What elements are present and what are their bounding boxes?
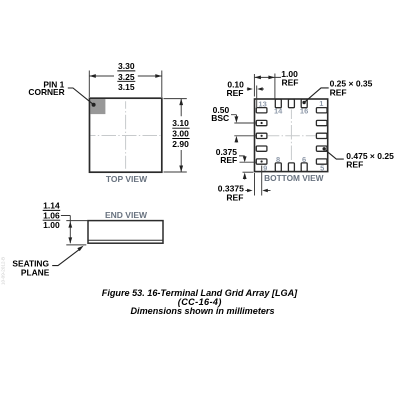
svg-text:10-09-2012-B: 10-09-2012-B [1,257,6,285]
width dimension extension line right [161,71,163,98]
seating plane leader arrow [52,249,79,265]
svg-text:1: 1 [319,99,323,108]
pad 10 [256,146,267,151]
svg-text:5: 5 [320,164,324,173]
bottom view horizontal center line [268,135,316,137]
top view vertical center line [125,101,127,168]
svg-text:CORNER: CORNER [28,87,64,97]
0.475 x 0.25 leader line [326,150,344,159]
thickness dimension arrow up [68,222,72,228]
fraction bar under 1.06 [43,219,61,221]
fraction bar under 3.10 [172,127,189,129]
width dimension extension line left [88,71,90,98]
0.375 REF pad-9 reference line [240,161,257,163]
pad 6 [301,163,307,172]
pad 16 leader dot [302,101,305,104]
pad 4 [316,146,327,151]
fraction bar under 3.25 [117,80,135,82]
svg-text:REF: REF [220,155,237,165]
svg-text:END VIEW: END VIEW [105,210,148,220]
svg-text:3.00: 3.00 [172,129,189,139]
svg-text:14: 14 [274,106,283,115]
end view seating plane inner line [88,239,163,241]
svg-text:REF: REF [282,77,299,87]
svg-text:3.30: 3.30 [118,61,135,71]
svg-text:1.00: 1.00 [43,220,60,230]
1.00 REF arrow left [254,76,261,80]
svg-text:TOP VIEW: TOP VIEW [106,174,148,184]
pad 2 [316,120,327,125]
0.375 REF arrow down [243,156,247,162]
pad 11 center dot [261,135,263,137]
pad 9 center dot [261,160,263,162]
0.3375 REF arrow pointing left [266,190,271,192]
svg-text:2.90: 2.90 [172,139,189,149]
pad 7 [288,163,294,172]
1.00 REF extension line (left, package edge) [253,74,255,97]
svg-text:Dimensions shown in millimeter: Dimensions shown in millimeters [130,306,274,316]
bottom view package outline [255,99,328,172]
width dimension arrow right [155,74,162,78]
svg-text:3.25: 3.25 [118,72,135,82]
height dimension arrow up [179,99,183,106]
svg-text:8: 8 [276,155,280,164]
pad 4 leader dot [323,147,326,150]
svg-text:1.14: 1.14 [43,201,60,211]
svg-text:3.15: 3.15 [118,82,135,92]
height dimension extension line bottom [164,171,187,173]
svg-text:16: 16 [300,107,308,116]
pin 1 corner index (gray square) [90,99,105,114]
pin 1 leader dot [92,103,96,107]
height dimension arrow down [179,166,183,173]
svg-text:BOTTOM VIEW: BOTTOM VIEW [264,173,323,183]
1.00 REF extension line (right) [274,74,276,99]
bottom edge extension line left [243,171,254,173]
0.3375 REF extension line (pad 9 center) [261,166,263,196]
1.00 REF arrow right [268,76,275,80]
height dimension line [180,99,182,172]
pad 13 [256,108,267,113]
seating plane arrowhead [77,246,83,252]
pad 14 [275,99,281,108]
end view body outline [88,221,163,244]
fraction bar under 1.14 [43,209,61,211]
0.50 BSC reference line upper [234,122,256,124]
pad 3 [316,133,327,138]
0.3375 REF extension line (outline edge) [254,173,256,196]
svg-text:REF: REF [330,88,347,98]
0.50 BSC arrow up [235,138,237,143]
svg-text:BSC: BSC [211,113,229,123]
svg-text:REF: REF [227,88,244,98]
width dimension line [89,75,162,77]
0.3375 REF arrow pointing right [245,190,248,192]
height dimension extension line top [164,98,187,100]
pad 12 center dot [261,122,263,124]
svg-text:REF: REF [346,159,363,169]
0.50 BSC arrow down [235,116,239,123]
fraction bar under 3.00 [172,138,189,140]
pad 11 [256,133,267,138]
top view package outline [90,98,162,172]
thickness dimension elbow leader [61,216,70,244]
1.00 REF dimension line [254,76,281,78]
svg-text:6: 6 [302,155,306,164]
svg-text:REF: REF [226,193,243,203]
0.25 x 0.35 leader line [304,88,329,103]
svg-text:9: 9 [263,163,267,172]
0.375 REF arrow up [244,175,246,180]
svg-text:13: 13 [258,99,266,108]
pad 9 [256,159,267,164]
0.10 REF extension line (pad edge) [256,86,258,108]
0.10 REF arrow pointing right [247,88,249,90]
pad 12 [256,120,267,125]
0.50 BSC elbow leader [231,115,237,118]
end view extension line bottom (seating plane) [66,244,86,246]
thickness dimension arrow down [68,237,72,243]
svg-text:1.06: 1.06 [43,210,60,220]
pad 8 [275,163,281,172]
pad 5 [316,159,327,164]
svg-text:3.10: 3.10 [172,118,189,128]
pad 1 [316,108,327,113]
fraction bar under 3.30 [117,70,135,72]
0.375 REF elbow leader [239,156,245,158]
svg-text:PLANE: PLANE [21,268,50,278]
top view horizontal center line [91,135,161,137]
pad 15 [288,99,294,108]
pin 1 leader line [68,88,94,105]
0.10 REF arrow pointing left [262,88,265,90]
bottom view vertical center line [290,110,292,162]
pad 16 [301,99,307,108]
0.50 BSC reference line lower [234,135,256,137]
end view extension line top [66,220,88,222]
width dimension arrow left [89,74,96,78]
